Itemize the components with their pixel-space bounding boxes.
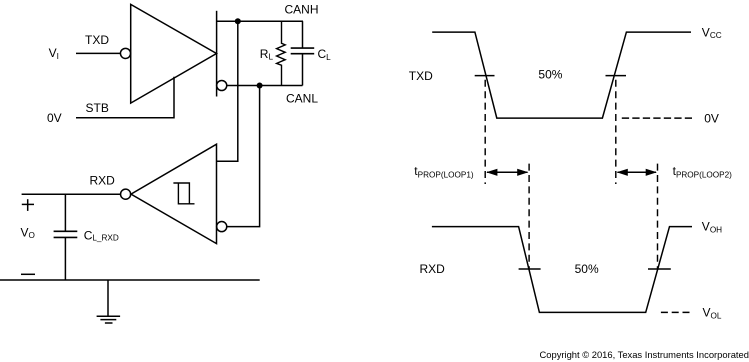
svg-text:CANH: CANH	[285, 2, 319, 16]
plus terminal	[22, 199, 34, 211]
svg-text:0V: 0V	[47, 111, 62, 125]
RXD waveform	[432, 227, 692, 313]
dashed line TXD rise crossing	[615, 80, 617, 184]
svg-text:0V: 0V	[704, 111, 719, 125]
svg-text:TXD: TXD	[85, 33, 109, 47]
svg-text:VI: VI	[49, 46, 59, 61]
tick TXD falling 50%	[475, 75, 495, 77]
capacitor CL_RXD	[54, 194, 78, 280]
junction dot CANL	[257, 83, 263, 89]
minus terminal	[21, 273, 35, 275]
wire CANL	[227, 85, 303, 87]
wire RXD	[22, 193, 121, 195]
pin bubble receiver inverting input	[217, 222, 227, 232]
TXD waveform	[432, 32, 691, 118]
svg-text:VCC: VCC	[702, 26, 722, 41]
arrow tPROP(LOOP1)	[486, 169, 528, 176]
svg-text:VOL: VOL	[703, 305, 722, 320]
receiver U2	[131, 144, 217, 243]
svg-text:50%: 50%	[538, 68, 562, 82]
tick RXD falling 50%	[519, 268, 541, 270]
arrow tPROP(LOOP2)	[617, 169, 657, 176]
svg-text:Copyright © 2016, Texas Instru: Copyright © 2016, Texas Instruments Inco…	[540, 349, 749, 360]
tick RXD rising 50%	[648, 268, 671, 270]
wire CANH to receiver input	[217, 21, 238, 161]
dashed line TXD fall crossing	[484, 80, 486, 184]
wire CANH	[217, 20, 303, 22]
pin bubble RXD	[121, 189, 131, 199]
wire TXD input	[76, 52, 120, 54]
svg-text:RXD: RXD	[420, 262, 446, 276]
svg-text:VOH: VOH	[702, 219, 722, 234]
dashed 0V level	[622, 117, 692, 119]
pin bubble TXD	[120, 48, 130, 58]
svg-text:tPROP(LOOP2): tPROP(LOOP2)	[673, 164, 733, 180]
driver output bar	[216, 11, 218, 97]
pin bubble CANL output	[217, 80, 227, 90]
svg-text:CL_RXD: CL_RXD	[84, 229, 119, 243]
svg-text:RL: RL	[260, 47, 274, 62]
ground	[97, 280, 121, 323]
resistor RL	[277, 21, 286, 85]
svg-text:CL: CL	[318, 47, 332, 62]
ground rail	[0, 279, 260, 281]
hysteresis symbol	[173, 183, 194, 204]
driver buffer U1	[131, 4, 217, 103]
svg-text:VO: VO	[21, 226, 35, 240]
wire STB	[76, 77, 174, 118]
capacitor CL	[291, 21, 315, 85]
dashed VOL level	[661, 311, 691, 313]
dashed line RXD rise crossing	[657, 164, 659, 269]
svg-text:STB: STB	[86, 101, 109, 115]
svg-text:CANL: CANL	[286, 92, 318, 106]
dashed line RXD fall crossing	[528, 164, 530, 269]
svg-text:TXD: TXD	[409, 69, 433, 83]
wire CANL to receiver inverting input	[227, 86, 260, 227]
svg-text:50%: 50%	[575, 262, 599, 276]
svg-text:tPROP(LOOP1): tPROP(LOOP1)	[414, 164, 474, 180]
junction dot CANH	[235, 18, 241, 24]
svg-text:RXD: RXD	[90, 173, 116, 187]
tick TXD rising 50%	[606, 75, 627, 77]
